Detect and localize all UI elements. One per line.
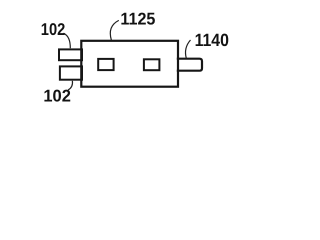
tab 102 lower-left [60,66,82,79]
body 1125 [81,41,178,87]
svg-text:102: 102 [41,20,66,39]
svg-text:1125: 1125 [120,9,155,28]
tab 1140 right [177,59,202,71]
svg-text:1140: 1140 [195,30,229,50]
svg-text:102: 102 [43,87,71,106]
leader line 1125 [110,20,119,40]
inner pad left [98,59,113,70]
leader line 1140 [186,40,191,58]
leader line 102 bottom [68,81,73,90]
tab 102 upper-left [59,49,82,60]
leader line 102 top [64,33,71,48]
inner pad right [144,59,160,70]
